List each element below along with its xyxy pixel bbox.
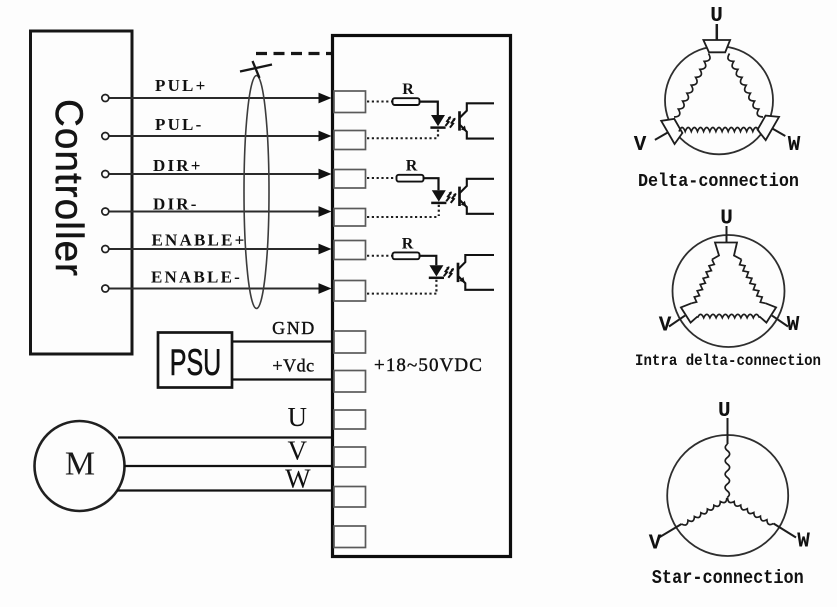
svg-text:PSU: PSU [170, 342, 222, 383]
svg-text:+Vdc: +Vdc [272, 356, 314, 376]
svg-text:R: R [402, 236, 414, 253]
svg-text:PUL-: PUL- [155, 115, 203, 134]
svg-text:Star-connection: Star-connection [652, 567, 804, 589]
svg-text:PUL+: PUL+ [155, 76, 208, 95]
svg-text:U: U [718, 400, 731, 423]
svg-text:R: R [406, 158, 418, 175]
svg-text:V: V [288, 436, 308, 466]
svg-text:U: U [720, 208, 733, 231]
svg-text:Intra delta-connection: Intra delta-connection [635, 352, 821, 370]
svg-text:GND: GND [272, 318, 316, 338]
svg-text:ENABLE+: ENABLE+ [152, 231, 247, 250]
svg-text:W: W [787, 314, 800, 337]
svg-text:U: U [288, 402, 308, 432]
svg-text:W: W [797, 531, 810, 554]
svg-text:R: R [402, 81, 414, 98]
svg-text:W: W [788, 134, 801, 157]
svg-text:V: V [649, 533, 662, 556]
svg-text:DIR+: DIR+ [153, 156, 203, 175]
svg-text:Delta-connection: Delta-connection [638, 171, 799, 192]
svg-text:M: M [65, 446, 95, 483]
svg-text:W: W [285, 464, 311, 494]
svg-text:DIR-: DIR- [153, 195, 199, 214]
svg-text:V: V [634, 134, 647, 157]
svg-text:Controller: Controller [47, 99, 90, 276]
svg-text:ENABLE-: ENABLE- [151, 268, 242, 287]
svg-text:V: V [659, 315, 672, 338]
svg-text:U: U [710, 5, 723, 28]
svg-text:+18~50VDC: +18~50VDC [374, 355, 483, 376]
